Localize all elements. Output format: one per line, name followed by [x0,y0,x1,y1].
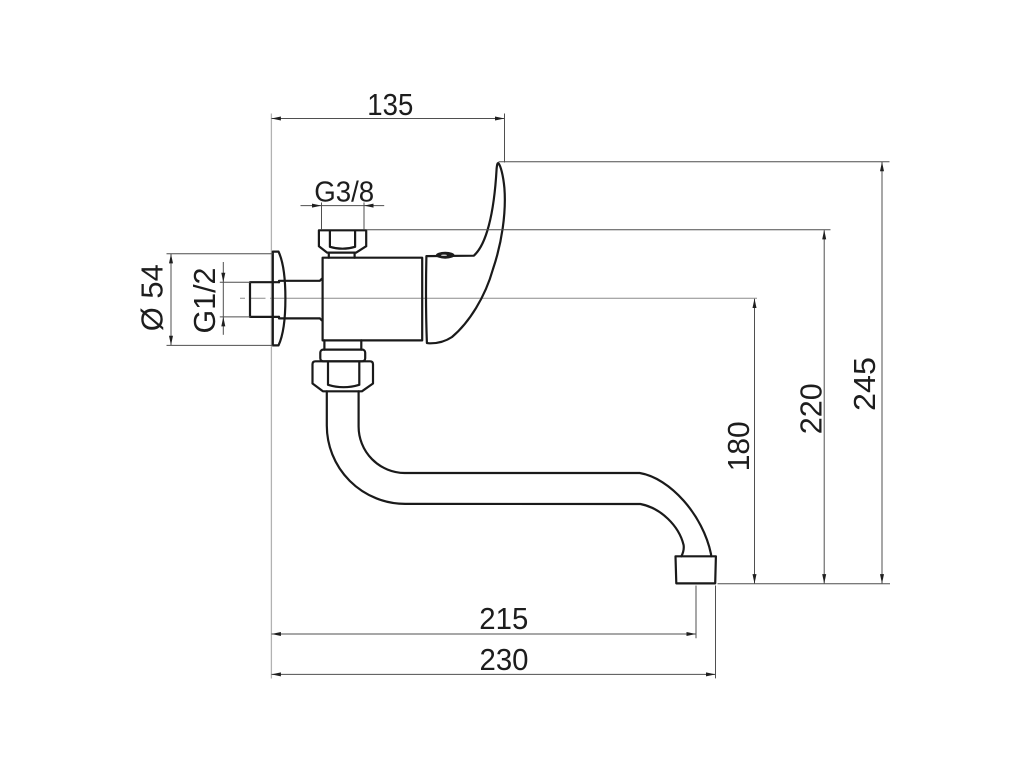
dim 220 line [823,230,825,583]
dim 230 arrow left [271,672,281,676]
dim G3/8 arrow right [364,204,374,208]
dim G3/8 ext left [321,203,323,230]
svg-text:230: 230 [480,642,529,677]
dim dia54 arrow bottom [169,336,173,346]
dim 215 arrow right [687,632,697,636]
dim 135 line [271,118,504,120]
dim dia54 line [170,254,172,345]
dim G1/2 ext top [220,281,251,283]
svg-text:215: 215 [479,601,528,636]
dim dia54 ext top [167,253,273,255]
svg-text:G1/2: G1/2 [187,268,222,334]
dim 215 line [271,633,696,635]
dim G1/2 line [222,262,224,335]
dim 180 arrow top [753,299,757,309]
dim 220 arrow top [822,230,826,240]
wall reference line [270,114,272,679]
G1/2 inlet stub [250,282,279,317]
outlet level ext line [718,583,891,585]
dim 135 arrow left [271,117,281,121]
svg-text:135: 135 [367,87,413,122]
handle lever [426,163,505,343]
dim 230 ext line [715,586,717,679]
dim 230 arrow right [706,672,716,676]
svg-text:Ø 54: Ø 54 [135,264,170,331]
dim G3/8 arrow left [312,204,322,208]
svg-text:220: 220 [794,383,829,434]
svg-text:180: 180 [721,421,756,471]
valve body [323,258,423,341]
dim G1/2 arrow top [221,273,225,283]
G3/8 nut [319,230,366,257]
dim 230 line [271,673,715,675]
dim dia54 ext bottom [167,344,273,346]
dim G3/8 line [301,205,385,207]
dim 215 ext line [695,586,697,639]
handle indicator lens [436,252,455,259]
dim G1/2 arrow bottom [221,317,225,327]
bottom union neck [324,340,361,349]
dim 245 arrow bottom [880,574,884,584]
dim 135 arrow right [495,117,505,121]
dim 220 ext line [367,229,831,231]
wall flange [273,252,286,346]
outlet nozzle [676,556,716,583]
dim 245 ext line [499,161,890,163]
dim 180 line [754,299,756,584]
dim G3/8 ext right [363,203,365,230]
bottom collar [320,350,365,362]
dim 245 line [881,162,883,583]
dim 245 arrow top [880,162,884,172]
inlet pipe [279,279,322,321]
bottom hex nut [313,361,374,391]
dim 215 arrow left [271,632,281,636]
dim 220 arrow bottom [822,574,826,584]
spout tube [327,391,711,556]
svg-text:G3/8: G3/8 [314,176,374,208]
dim dia54 arrow top [169,254,173,264]
svg-text:245: 245 [847,357,882,411]
dim G1/2 ext bottom [220,316,251,318]
dim 180 arrow bottom [753,574,757,584]
centerline axis [240,297,757,299]
extension line lever tip [504,114,506,163]
